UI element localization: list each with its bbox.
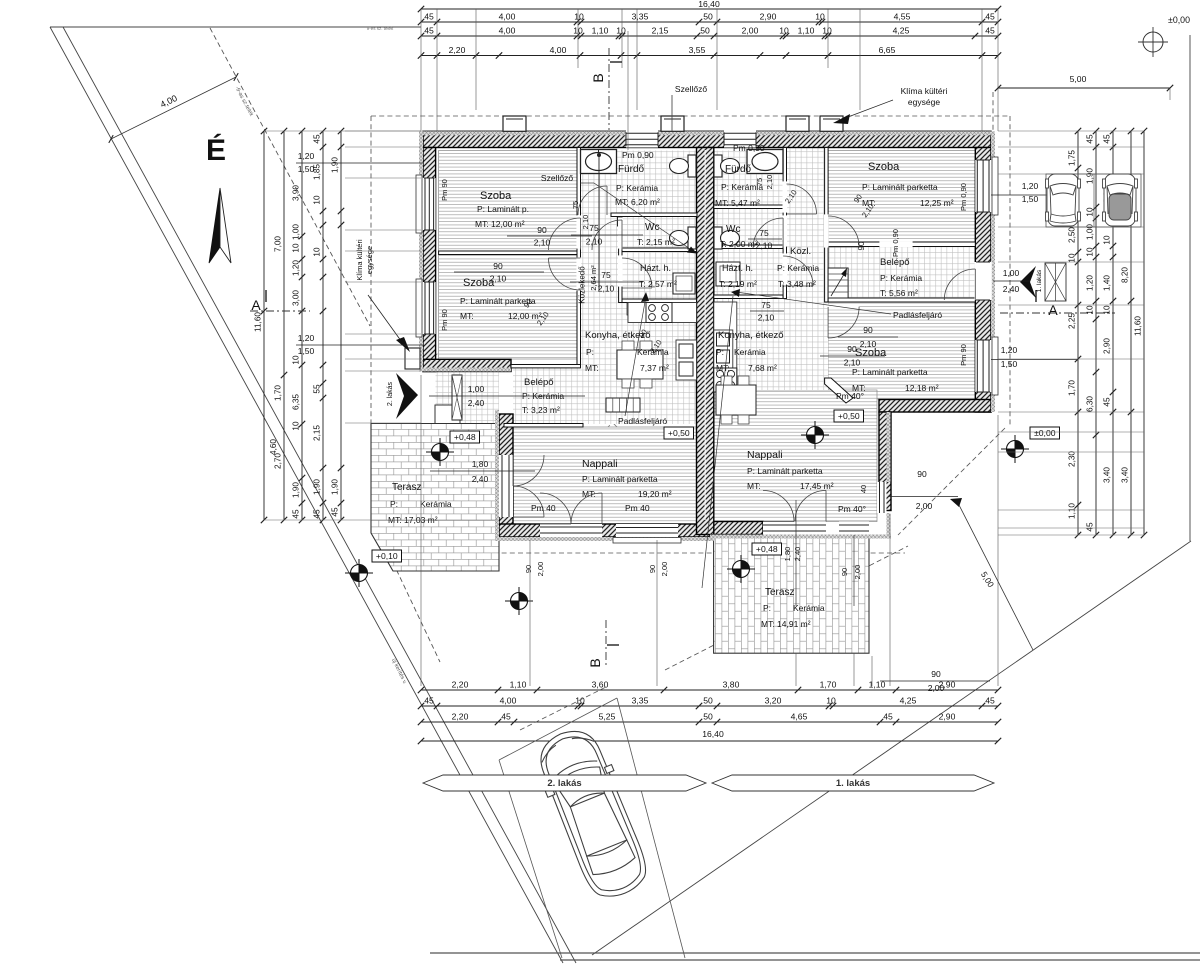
svg-text:2,90: 2,90 [760, 12, 777, 22]
partition wc-R south [714, 245, 783, 249]
wall left exterior [423, 148, 436, 372]
svg-text:T: 3,23 m²: T: 3,23 m² [522, 405, 560, 415]
svg-text:3,35: 3,35 [632, 12, 649, 22]
svg-text:+0,50: +0,50 [838, 411, 860, 421]
svg-text:10: 10 [1086, 247, 1095, 257]
svg-text:1,80: 1,80 [472, 459, 489, 469]
elevation marker below nappali L [511, 593, 528, 610]
terrace door L leaf2 [513, 486, 544, 517]
eaves dashed outline [371, 115, 1010, 117]
svg-text:10: 10 [616, 26, 626, 36]
svg-text:6,65: 6,65 [879, 45, 896, 55]
svg-text:Klíma kültéri: Klíma kültéri [355, 239, 364, 281]
svg-text:3,80: 3,80 [723, 680, 740, 690]
dimension column left col5 [340, 131, 342, 520]
partition belépő north [511, 365, 581, 368]
svg-text:4,65: 4,65 [791, 712, 808, 722]
right boundary diagonal [592, 541, 1191, 955]
door szoba-RB [828, 307, 859, 338]
window nappali-L bottom [616, 524, 678, 537]
svg-text:2,10: 2,10 [581, 215, 590, 230]
5,00 dim top right [998, 87, 1170, 89]
dimension column right col3 [1112, 131, 1114, 535]
svg-text:45: 45 [1103, 397, 1112, 407]
svg-text:10: 10 [292, 355, 301, 365]
door szoba1 [549, 218, 581, 250]
window szoba-RB right (1,50) [975, 340, 992, 392]
svg-text:90: 90 [857, 241, 866, 250]
wall top exterior [423, 131, 991, 147]
svg-text:1,20: 1,20 [292, 260, 301, 276]
svg-text:P:: P: [390, 499, 398, 509]
svg-text:11,60: 11,60 [254, 312, 263, 332]
washing machine házt-R [716, 262, 740, 286]
svg-text:Pm 0,90: Pm 0,90 [733, 143, 765, 153]
svg-text:+0,48: +0,48 [454, 432, 476, 442]
partition házt-R south [714, 295, 783, 299]
bottom dim 16,40 [421, 740, 998, 742]
svg-text:P: Laminált parketta: P: Laminált parketta [862, 182, 938, 192]
svg-text:Kerámia: Kerámia [420, 499, 452, 509]
svg-text:4,00: 4,00 [499, 12, 516, 22]
svg-text:75: 75 [755, 178, 764, 186]
svg-text:90: 90 [840, 568, 849, 576]
svg-text:4,55: 4,55 [894, 12, 911, 22]
svg-text:10: 10 [313, 247, 322, 257]
svg-text:2,90: 2,90 [1103, 338, 1112, 354]
svg-text:Kerámia: Kerámia [734, 347, 766, 357]
dimension column right col5 [1143, 131, 1145, 535]
svg-text:45: 45 [1086, 134, 1095, 144]
svg-text:10: 10 [574, 12, 584, 22]
stove left (4 burners) [646, 303, 672, 323]
wall bottom of entry (SW) [423, 359, 511, 371]
svg-text:1,50: 1,50 [298, 346, 315, 356]
svg-text:2,10: 2,10 [765, 175, 774, 190]
svg-text:1,20: 1,20 [298, 151, 315, 161]
roof hip dashed diagonals left unit [427, 139, 700, 412]
svg-text:±0,00: ±0,00 [1034, 428, 1056, 438]
tiled floors [581, 151, 697, 425]
svg-text:1. lakás: 1. lakás [836, 778, 870, 789]
svg-text:1,70: 1,70 [820, 680, 837, 690]
svg-text:MT: 14,91 m²: MT: 14,91 m² [761, 619, 811, 629]
svg-text:45: 45 [985, 12, 995, 22]
toilet wc-L [688, 227, 696, 249]
banner 1 lakás [712, 775, 994, 791]
svg-text:P: Laminált parketta: P: Laminált parketta [852, 367, 928, 377]
svg-text:10: 10 [1068, 253, 1077, 263]
svg-text:90: 90 [863, 325, 873, 335]
svg-text:75: 75 [761, 300, 771, 310]
partition fürdő-L south [611, 213, 697, 217]
svg-text:4,25: 4,25 [900, 696, 917, 706]
svg-text:P:: P: [716, 347, 724, 357]
svg-text:MT:: MT: [716, 363, 730, 373]
svg-text:9-es sz. telek: 9-es sz. telek [367, 26, 394, 31]
svg-text:2,10: 2,10 [586, 237, 603, 247]
svg-text:2,10: 2,10 [598, 284, 615, 294]
klima unit left [405, 348, 420, 369]
insulation bands on exterior faces [423, 131, 991, 135]
svg-text:P: Laminált parketta: P: Laminált parketta [747, 466, 823, 476]
svg-text:1,20: 1,20 [1022, 181, 1039, 191]
svg-text:P: Kerámia: P: Kerámia [616, 183, 658, 193]
svg-text:3,60: 3,60 [592, 680, 609, 690]
dimension row bottom row2 [421, 705, 998, 707]
svg-text:MT:: MT: [460, 311, 474, 321]
svg-text:3,55: 3,55 [689, 45, 706, 55]
svg-text:7,00: 7,00 [274, 236, 283, 252]
entrance arrow right unit [1020, 266, 1036, 298]
north arrow [209, 188, 220, 263]
dimension column left col1 [263, 131, 265, 520]
terrace door nappali-R bottom (1,80) [763, 522, 826, 535]
svg-text:1. lakás: 1. lakás [1036, 269, 1043, 292]
window fürdő-L (Pm 0,90) [626, 131, 658, 148]
wall right exterior [975, 148, 991, 413]
svg-text:2,10: 2,10 [860, 339, 877, 349]
dimension row bottom row3 [421, 721, 998, 723]
svg-text:1,90: 1,90 [331, 479, 340, 495]
svg-text:10: 10 [292, 421, 301, 431]
chamfer wall szoba-RB corner [825, 378, 853, 403]
svg-text:P: Laminált parketta: P: Laminált parketta [582, 474, 658, 484]
svg-text:1,75: 1,75 [1068, 150, 1077, 166]
svg-text:Közlekedő: Közlekedő [578, 266, 587, 304]
dimension column left col2 [283, 131, 285, 520]
svg-text:10: 10 [815, 12, 825, 22]
door fürdő-R [787, 184, 817, 214]
svg-text:50: 50 [703, 12, 713, 22]
partition belépő/szobaRB [828, 298, 975, 302]
street second edge [63, 27, 576, 963]
elevation marker boundary SW [351, 565, 368, 582]
svg-text:Pm 0,90: Pm 0,90 [622, 150, 654, 160]
svg-text:Pm 40: Pm 40 [531, 503, 556, 513]
door wc-R [753, 218, 783, 248]
level label +0,50 [834, 410, 864, 422]
svg-text:3,40: 3,40 [1103, 467, 1112, 483]
svg-text:Fürdő: Fürdő [725, 164, 752, 175]
svg-text:MT:: MT: [582, 489, 596, 499]
nappali-L door leaf2 [571, 493, 602, 524]
svg-text:2,20: 2,20 [449, 45, 466, 55]
nappali-R door leaf1 [763, 491, 794, 522]
level label +0,48 [450, 431, 480, 443]
attic stairs right [828, 268, 848, 298]
svg-text:10: 10 [292, 243, 301, 253]
dimension row top row3 [421, 55, 998, 57]
level label +0,50 [664, 427, 694, 439]
svg-text:2,10: 2,10 [490, 274, 507, 284]
svg-text:MT:: MT: [585, 363, 599, 373]
svg-text:90: 90 [493, 261, 503, 271]
partition wc-L south [622, 248, 697, 252]
svg-text:P:: P: [586, 347, 594, 357]
svg-text:1,90: 1,90 [1086, 168, 1095, 184]
svg-text:MT:: MT: [747, 481, 761, 491]
svg-text:1,10: 1,10 [1068, 503, 1077, 519]
sink left [676, 340, 697, 380]
door házt-L [622, 258, 652, 288]
svg-text:Szellőző: Szellőző [675, 84, 707, 94]
top dim header 16,40 [421, 8, 998, 10]
svg-text:10: 10 [1086, 207, 1095, 217]
svg-text:2,00: 2,00 [742, 26, 759, 36]
level label +0,10 [372, 550, 402, 562]
top extension lines [420, 9, 422, 131]
terrace door L leaf1 [513, 455, 544, 486]
svg-text:3,20: 3,20 [765, 696, 782, 706]
svg-text:2,40: 2,40 [793, 547, 802, 562]
partition házt-L south [622, 299, 697, 303]
entrance arrow left unit [396, 373, 418, 419]
left extension lines [345, 130, 421, 132]
parquet floors [439, 151, 577, 252]
kitchen counter left [628, 303, 697, 323]
svg-text:16,40: 16,40 [698, 0, 720, 9]
svg-text:Wc: Wc [726, 224, 740, 235]
svg-text:T: 5,56 m²: T: 5,56 m² [880, 288, 918, 298]
svg-text:4,00: 4,00 [500, 696, 517, 706]
svg-text:5,25: 5,25 [599, 712, 616, 722]
svg-text:±0,00: ±0,00 [1168, 15, 1190, 25]
svg-text:45: 45 [501, 712, 511, 722]
parking right rect [1046, 174, 1141, 227]
svg-text:50: 50 [703, 712, 713, 722]
terrace left [371, 424, 499, 572]
car top view [528, 721, 658, 907]
wall nappali-left west [499, 414, 513, 525]
right boundary vertical [1189, 35, 1191, 541]
svg-text:17,45 m²: 17,45 m² [800, 481, 834, 491]
svg-text:12,25 m²: 12,25 m² [920, 198, 954, 208]
wall nappali-right bottom [714, 522, 763, 535]
svg-text:7,37 m²: 7,37 m² [640, 363, 669, 373]
partition szoba1/szoba2 [439, 251, 577, 255]
svg-text:1,90: 1,90 [292, 482, 301, 498]
svg-text:Padlásfeljáró: Padlásfeljáró [618, 416, 667, 426]
svg-text:2,40: 2,40 [472, 474, 489, 484]
svg-text:3,40: 3,40 [1121, 467, 1130, 483]
svg-text:Pm 0,90: Pm 0,90 [959, 183, 968, 211]
svg-text:10: 10 [779, 26, 789, 36]
svg-text:P: Kerámia: P: Kerámia [777, 263, 819, 273]
svg-text:2. lakás: 2. lakás [387, 381, 394, 406]
svg-text:1,50: 1,50 [1022, 194, 1039, 204]
svg-text:Terasz: Terasz [765, 587, 794, 598]
svg-text:10: 10 [822, 26, 832, 36]
svg-text:Klíma kültéri: Klíma kültéri [901, 86, 948, 96]
svg-text:6,35: 6,35 [292, 394, 301, 410]
svg-text:Szellőző: Szellőző [541, 173, 573, 183]
dimension row bottom row1 [421, 689, 998, 691]
svg-text:2,00: 2,00 [660, 562, 669, 577]
svg-text:1,20: 1,20 [1086, 275, 1095, 291]
svg-text:2,90: 2,90 [939, 712, 956, 722]
svg-text:Nappali: Nappali [747, 449, 783, 461]
small cabinet left kitchen [627, 303, 639, 315]
5,00 rotated dim right yard [958, 503, 1033, 650]
svg-text:2,10: 2,10 [534, 238, 551, 248]
kitchen table right [716, 385, 756, 415]
svg-text:2,25: 2,25 [1068, 313, 1077, 329]
svg-text:egysége: egysége [908, 97, 940, 107]
svg-text:45: 45 [313, 134, 322, 144]
svg-text:19,20 m²: 19,20 m² [638, 489, 672, 499]
right extension lines [998, 130, 1144, 132]
kitchen counter right [714, 302, 737, 392]
svg-text:2. lakás: 2. lakás [547, 778, 581, 789]
svg-text:7,68 m²: 7,68 m² [748, 363, 777, 373]
partition corridor-R west [783, 148, 786, 299]
svg-text:1,00: 1,00 [292, 224, 301, 240]
svg-text:+0,10: +0,10 [376, 551, 398, 561]
svg-text:É: É [206, 133, 226, 167]
svg-text:50: 50 [700, 26, 710, 36]
svg-text:45: 45 [1103, 134, 1112, 144]
svg-text:12,18 m²: 12,18 m² [905, 383, 939, 393]
svg-text:1,20: 1,20 [1001, 345, 1018, 355]
svg-text:10: 10 [313, 195, 322, 205]
elevation marker terrace L [432, 444, 449, 461]
svg-text:75: 75 [759, 228, 769, 238]
terrace door nappali-L bottom (sliding) [540, 524, 602, 537]
svg-text:1,70: 1,70 [274, 385, 283, 401]
svg-text:2,40: 2,40 [468, 398, 485, 408]
svg-text:45: 45 [985, 696, 995, 706]
extension lines to bottom dims [529, 540, 531, 686]
dimension column right col1 [1077, 131, 1079, 535]
svg-text:Belépő: Belépő [524, 377, 554, 388]
door nappali-R east (90) [877, 482, 887, 513]
svg-text:MT: 12,00 m²: MT: 12,00 m² [475, 219, 525, 229]
svg-text:55: 55 [313, 384, 322, 394]
kitchen table left [617, 350, 663, 379]
wall party wall [697, 148, 714, 535]
svg-text:45: 45 [424, 12, 434, 22]
svg-text:4,60: 4,60 [269, 439, 278, 455]
elevation marker terrace R [733, 561, 750, 578]
partition szobaRT/belépő [828, 242, 975, 247]
washbasin fürdő-R [747, 150, 783, 174]
svg-text:4,00: 4,00 [550, 45, 567, 55]
dimension column left col3 [301, 131, 303, 520]
svg-text:45: 45 [985, 26, 995, 36]
svg-text:1,90: 1,90 [313, 479, 322, 495]
svg-text:1,40: 1,40 [1103, 275, 1112, 291]
svg-text:45: 45 [292, 509, 301, 519]
svg-text:1,50: 1,50 [1001, 359, 1018, 369]
nappali-R door leaf2 [795, 491, 826, 522]
svg-text:1,20: 1,20 [298, 333, 315, 343]
window szoba2 left (1,50) [422, 282, 435, 334]
svg-text:Pm 40°: Pm 40° [836, 391, 864, 401]
window nappali-R bottom [839, 522, 869, 535]
svg-text:3,00: 3,00 [292, 290, 301, 306]
svg-text:45: 45 [1086, 522, 1095, 532]
svg-text:T: 2,00 m²: T: 2,00 m² [720, 239, 758, 249]
elevation marker nappali R [807, 427, 824, 444]
nappali-L door leaf1 [540, 493, 571, 524]
door házt-R [783, 256, 813, 286]
wall nappali-right east [879, 412, 891, 511]
svg-text:Padlásfeljáró: Padlásfeljáró [893, 310, 942, 320]
svg-text:10: 10 [575, 696, 585, 706]
svg-text:8,20: 8,20 [1121, 267, 1130, 283]
svg-text:2,00: 2,00 [853, 565, 862, 580]
svg-text:1,10: 1,10 [592, 26, 609, 36]
window fürdő-R (Pm 0,90) [724, 131, 756, 148]
window szoba-RT right (1,50) [975, 160, 992, 212]
wall stub fürdő-L [618, 217, 623, 226]
svg-text:T: 2,15 m²: T: 2,15 m² [637, 237, 675, 247]
svg-text:5,00: 5,00 [1070, 74, 1087, 84]
door wc-L [592, 220, 622, 250]
svg-text:10: 10 [826, 696, 836, 706]
svg-text:1,85: 1,85 [313, 164, 322, 180]
entrance door right unit [975, 262, 992, 300]
svg-text:A: A [1048, 302, 1058, 318]
banner 2 lakás [423, 775, 706, 791]
vent stubs on top wall [503, 116, 526, 131]
stove right [714, 368, 737, 392]
svg-text:50: 50 [703, 696, 713, 706]
toilet wc-R [714, 227, 722, 249]
washbasin fürdő-L [581, 150, 617, 174]
svg-text:1,10: 1,10 [798, 26, 815, 36]
svg-text:B: B [590, 73, 606, 82]
svg-text:1,90: 1,90 [331, 157, 340, 173]
svg-text:Szoba: Szoba [868, 161, 900, 173]
vent duct line [598, 155, 600, 290]
svg-text:16,40: 16,40 [702, 729, 724, 739]
svg-text:T: 2,19 m²: T: 2,19 m² [719, 279, 757, 289]
dim 4,00 between boundaries [111, 77, 236, 139]
door szoba-RT [828, 216, 859, 247]
toilet fürdő-R [714, 155, 722, 177]
partition corridor/fürdő wall [619, 213, 622, 303]
svg-text:40: 40 [859, 485, 868, 493]
partition belépő/nappali stub [504, 424, 583, 428]
svg-text:45: 45 [424, 696, 434, 706]
svg-text:45: 45 [424, 26, 434, 36]
svg-text:4,25: 4,25 [893, 26, 910, 36]
svg-text:2,00: 2,00 [916, 501, 933, 511]
svg-text:P:: P: [763, 603, 771, 613]
svg-text:2,10: 2,10 [758, 313, 775, 323]
svg-text:+0,48: +0,48 [756, 544, 778, 554]
svg-text:2,20: 2,20 [452, 680, 469, 690]
sink right [714, 330, 733, 368]
svg-text:Házt. h.: Házt. h. [640, 263, 671, 273]
svg-text:90: 90 [917, 469, 927, 479]
svg-text:10: 10 [1103, 235, 1112, 245]
svg-text:2,64 m²: 2,64 m² [589, 265, 598, 291]
svg-text:Pm 90: Pm 90 [440, 309, 449, 331]
svg-text:90: 90 [648, 565, 657, 573]
attic hatch left [606, 398, 640, 412]
svg-text:90: 90 [537, 225, 547, 235]
benchmark circle top right [1143, 32, 1163, 52]
svg-text:Wc: Wc [645, 222, 659, 233]
svg-text:Házt. h.: Házt. h. [722, 263, 753, 273]
dashed fence near terrace [372, 518, 440, 662]
svg-text:90: 90 [524, 565, 533, 573]
svg-text:2,00: 2,00 [536, 562, 545, 577]
wall nappali-left bottom [499, 524, 714, 537]
